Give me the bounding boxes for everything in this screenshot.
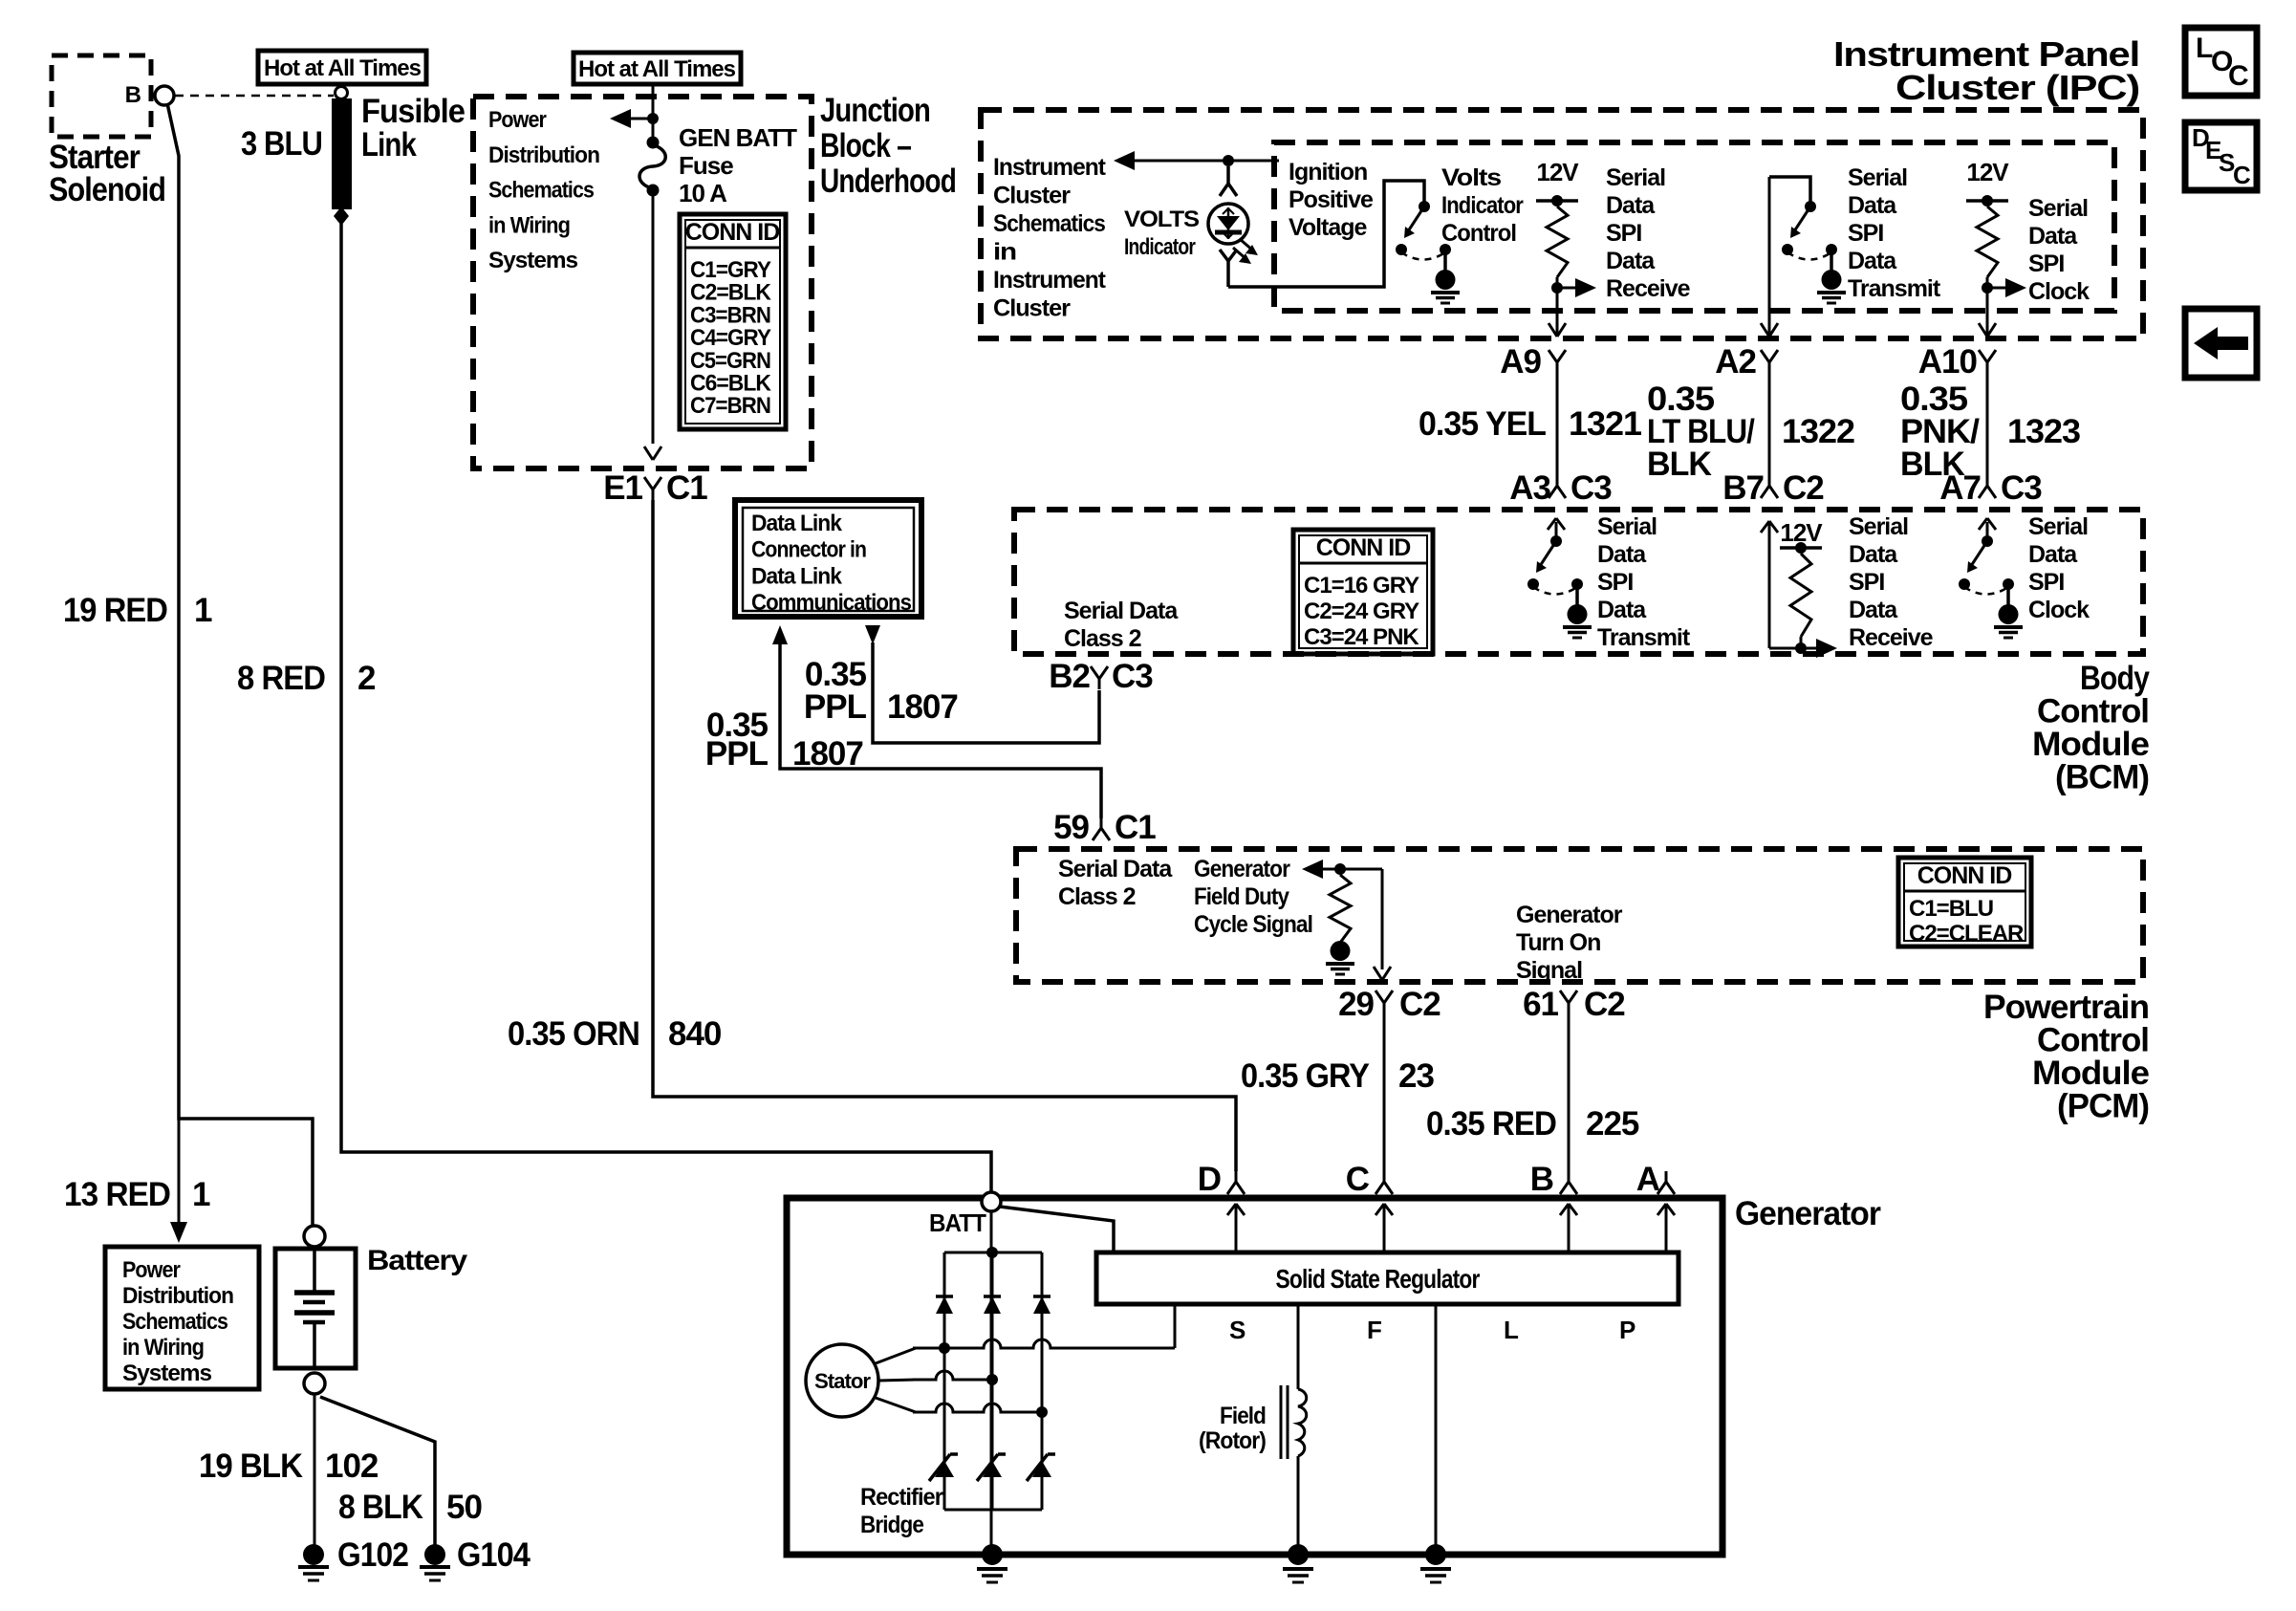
svg-text:10 A: 10 A bbox=[679, 179, 727, 207]
resistor R3 bcm receive bbox=[1790, 554, 1811, 637]
svg-text:Cluster: Cluster bbox=[993, 183, 1071, 209]
wire spi clock bcm arrow bbox=[1986, 522, 1989, 541]
power distribution schematics box (battery) bbox=[105, 1247, 259, 1389]
diode D2 bbox=[984, 1295, 1001, 1298]
svg-text:8 RED: 8 RED bbox=[237, 660, 325, 697]
battery positive terminal circle bbox=[304, 1226, 325, 1247]
node at fuse top bbox=[647, 113, 659, 124]
svg-text:Data: Data bbox=[2028, 541, 2078, 568]
stator phase top wire bbox=[913, 1339, 1175, 1348]
regulator pin C arrow bbox=[1383, 1204, 1386, 1252]
generator ground 3 bbox=[1425, 1544, 1446, 1565]
wire regulator L to ground bbox=[1435, 1304, 1438, 1555]
rectifier column 2 bbox=[991, 1252, 994, 1510]
svg-text:Serial: Serial bbox=[1597, 513, 1657, 540]
wire 0.35 PPL 1807 upper (to BCM B2) bbox=[865, 625, 880, 644]
wire 0.35 GRY 23 bbox=[1383, 1013, 1386, 1171]
svg-text:GEN BATT: GEN BATT bbox=[679, 123, 797, 152]
svg-text:Data: Data bbox=[1849, 541, 1898, 568]
svg-text:Ignition: Ignition bbox=[1289, 159, 1367, 185]
generator BATT terminal circle bbox=[982, 1192, 1001, 1211]
svg-text:(BCM): (BCM) bbox=[2055, 759, 2149, 796]
svg-text:1: 1 bbox=[194, 592, 212, 629]
svg-text:1: 1 bbox=[192, 1176, 210, 1213]
svg-text:Receive: Receive bbox=[1849, 624, 1934, 651]
svg-text:Volts: Volts bbox=[1441, 164, 1501, 191]
svg-text:Generator: Generator bbox=[1194, 856, 1290, 882]
stator phase middle wire bbox=[913, 1371, 992, 1380]
svg-text:Class 2: Class 2 bbox=[1064, 625, 1141, 652]
scr S3 bbox=[1027, 1454, 1048, 1481]
svg-text:Stator: Stator bbox=[814, 1369, 871, 1393]
svg-text:CONN ID: CONN ID bbox=[1917, 862, 2012, 889]
svg-text:Data: Data bbox=[2028, 223, 2078, 250]
svg-text:(PCM): (PCM) bbox=[2057, 1088, 2149, 1125]
svg-text:Schematics: Schematics bbox=[122, 1309, 228, 1335]
svg-text:A9: A9 bbox=[1500, 343, 1541, 381]
svg-text:in: in bbox=[993, 239, 1016, 266]
wire fuse to E1 bbox=[652, 193, 655, 444]
svg-text:C3: C3 bbox=[1112, 658, 1153, 695]
svg-text:Module: Module bbox=[2032, 1055, 2150, 1092]
svg-text:Cluster: Cluster bbox=[993, 295, 1071, 322]
connector A7 C3 bcm bbox=[1986, 475, 1989, 486]
svg-text:Data: Data bbox=[1848, 248, 1897, 274]
svg-text:CONN ID: CONN ID bbox=[685, 219, 780, 246]
node bcm receive bbox=[1795, 642, 1807, 654]
wire A9 inside ipc bbox=[1556, 277, 1559, 335]
arrow serial data receive bbox=[1557, 287, 1577, 290]
svg-text:C1: C1 bbox=[1115, 809, 1156, 846]
wire resistor to node bcm bbox=[1800, 637, 1803, 648]
svg-text:Data: Data bbox=[1597, 597, 1647, 623]
svg-text:225: 225 bbox=[1586, 1105, 1639, 1143]
wire 29 C2 inside pcm bbox=[1381, 869, 1384, 969]
svg-text:in Wiring: in Wiring bbox=[122, 1335, 204, 1361]
svg-text:1323: 1323 bbox=[2007, 413, 2081, 450]
12V feed bar ipc clock bbox=[1966, 199, 2008, 203]
svg-text:C2=CLEAR: C2=CLEAR bbox=[1909, 921, 2024, 947]
svg-text:C1=BLU: C1=BLU bbox=[1909, 896, 1993, 922]
svg-text:PPL: PPL bbox=[804, 688, 867, 726]
svg-text:C7=BRN: C7=BRN bbox=[690, 393, 770, 419]
svg-text:12V: 12V bbox=[1966, 158, 2009, 186]
svg-text:Signal: Signal bbox=[1516, 957, 1582, 984]
rectifier column 1 bbox=[943, 1252, 946, 1510]
svg-text:Data: Data bbox=[1606, 192, 1656, 219]
12V feed bar ipc receive bbox=[1536, 199, 1578, 203]
svg-text:1807: 1807 bbox=[887, 688, 958, 726]
svg-text:C2: C2 bbox=[1783, 469, 1824, 507]
connector C bbox=[1383, 1171, 1386, 1182]
connector A9 ipc bbox=[1549, 350, 1557, 362]
wire 0.35 YEL 1321 bbox=[1556, 373, 1559, 475]
generator ground 1 bbox=[982, 1544, 1003, 1565]
wire A2 inside ipc bbox=[1768, 177, 1771, 335]
stator M1 bbox=[806, 1344, 878, 1417]
connector B bbox=[1568, 1171, 1570, 1182]
svg-text:C: C bbox=[1346, 1161, 1370, 1198]
svg-text:Transmit: Transmit bbox=[1848, 275, 1941, 302]
svg-text:0.35 GRY: 0.35 GRY bbox=[1241, 1057, 1370, 1095]
svg-text:C2: C2 bbox=[1584, 986, 1625, 1023]
connector E1 C1 bbox=[644, 477, 653, 490]
svg-text:Positive: Positive bbox=[1289, 186, 1374, 213]
volts indicator lamp U1 bbox=[1208, 204, 1248, 244]
svg-text:Clock: Clock bbox=[2028, 278, 2090, 305]
svg-text:Data: Data bbox=[1606, 248, 1656, 274]
fusible link F1 bar bbox=[333, 99, 351, 208]
svg-text:Turn On: Turn On bbox=[1516, 929, 1600, 956]
wire dashed B to fusible link bbox=[175, 95, 334, 98]
svg-text:Data Link: Data Link bbox=[751, 563, 843, 589]
arrowhead A9 at ipc edge bbox=[1549, 323, 1557, 337]
svg-text:Instrument: Instrument bbox=[993, 267, 1107, 294]
svg-text:C3=24 PNK: C3=24 PNK bbox=[1304, 624, 1419, 650]
connector A2 ipc bbox=[1761, 350, 1769, 362]
diode D1 bbox=[936, 1295, 953, 1298]
svg-text:SPI: SPI bbox=[1849, 569, 1884, 596]
wire 0.35 RED 225 bbox=[1568, 1013, 1570, 1171]
svg-text:Hot at All Times: Hot at All Times bbox=[578, 56, 736, 82]
svg-text:1321: 1321 bbox=[1569, 405, 1642, 443]
svg-text:Instrument: Instrument bbox=[993, 154, 1107, 181]
svg-text:G104: G104 bbox=[457, 1536, 531, 1574]
scr S1 bbox=[929, 1454, 950, 1481]
svg-text:Connector in: Connector in bbox=[751, 537, 866, 563]
svg-text:BLK: BLK bbox=[1647, 446, 1712, 483]
svg-text:Cycle Signal: Cycle Signal bbox=[1194, 911, 1312, 938]
ground G102 bbox=[303, 1544, 324, 1565]
svg-text:CONN ID: CONN ID bbox=[1316, 534, 1411, 561]
svg-text:Clock: Clock bbox=[2028, 597, 2090, 623]
svg-text:Systems: Systems bbox=[488, 248, 578, 273]
arrowhead 29 at pcm edge bbox=[1374, 967, 1382, 980]
arrowhead into junction block edge bbox=[644, 446, 653, 460]
svg-text:A3: A3 bbox=[1509, 469, 1550, 507]
volts indicator connector bottom bbox=[1220, 250, 1228, 261]
fusible link bottom diamond bbox=[334, 207, 349, 226]
arrow serial data clock bbox=[1987, 287, 2007, 290]
svg-text:0.35 RED: 0.35 RED bbox=[1426, 1105, 1556, 1143]
svg-text:Systems: Systems bbox=[122, 1361, 212, 1386]
svg-text:SPI: SPI bbox=[1606, 220, 1641, 247]
generator ground 2 bbox=[1288, 1544, 1309, 1565]
LOC box bbox=[2185, 28, 2257, 96]
wire field coil to ground bbox=[1297, 1456, 1300, 1555]
svg-text:Transmit: Transmit bbox=[1597, 624, 1691, 651]
svg-text:Class 2: Class 2 bbox=[1058, 883, 1136, 910]
regulator pin D arrow bbox=[1235, 1204, 1238, 1252]
junction block underhood box bbox=[473, 97, 812, 468]
svg-text:Distribution: Distribution bbox=[488, 142, 599, 168]
svg-text:13 RED: 13 RED bbox=[64, 1176, 170, 1213]
svg-text:Voltage: Voltage bbox=[1289, 214, 1368, 241]
wire 0.35 ORN 840 E1 to generator D bbox=[653, 500, 1236, 1171]
instrument panel cluster box bbox=[981, 110, 2143, 338]
svg-text:Solenoid: Solenoid bbox=[49, 171, 165, 208]
volts indicator connector top bbox=[1226, 166, 1230, 184]
battery negative terminal circle bbox=[304, 1373, 325, 1394]
wire ignition positive voltage with arrow bbox=[1114, 151, 1135, 170]
svg-text:G102: G102 bbox=[337, 1536, 408, 1574]
svg-text:Solid State Regulator: Solid State Regulator bbox=[1276, 1264, 1481, 1294]
svg-text:Cluster (IPC): Cluster (IPC) bbox=[1895, 68, 2139, 107]
svg-text:PPL: PPL bbox=[705, 735, 769, 773]
connector 61 C2 bbox=[1560, 991, 1569, 1003]
svg-text:3 BLU: 3 BLU bbox=[241, 125, 322, 163]
fuse GEN BATT 10A bbox=[647, 137, 660, 149]
svg-text:50: 50 bbox=[446, 1489, 482, 1526]
svg-text:SPI: SPI bbox=[2028, 250, 2064, 277]
svg-text:P: P bbox=[1619, 1316, 1635, 1344]
svg-text:A10: A10 bbox=[1918, 343, 1978, 381]
svg-text:Block –: Block – bbox=[820, 127, 911, 164]
solid state regulator U2 bbox=[1096, 1252, 1679, 1304]
svg-text:840: 840 bbox=[668, 1015, 722, 1053]
svg-text:Field: Field bbox=[1220, 1403, 1266, 1429]
resistor R1 ipc receive bbox=[1547, 207, 1568, 277]
regulator pin B arrow bbox=[1568, 1204, 1570, 1252]
wire volts lamp to control switch bbox=[1228, 181, 1424, 287]
rectifier top rail bbox=[944, 1252, 1042, 1254]
starter solenoid box bbox=[52, 55, 151, 137]
connector B7 C2 bcm bbox=[1768, 475, 1771, 486]
svg-text:B: B bbox=[1530, 1161, 1553, 1198]
svg-text:L: L bbox=[1504, 1316, 1519, 1344]
svg-text:SPI: SPI bbox=[1597, 569, 1633, 596]
wire A10 inside ipc bbox=[1986, 277, 1989, 335]
rectifier column 3 bbox=[1041, 1252, 1044, 1510]
svg-text:19 RED: 19 RED bbox=[63, 592, 167, 629]
svg-text:B2: B2 bbox=[1049, 658, 1090, 695]
svg-text:2: 2 bbox=[357, 660, 376, 697]
svg-text:Body: Body bbox=[2080, 660, 2150, 697]
svg-text:61: 61 bbox=[1523, 986, 1558, 1023]
svg-text:Serial: Serial bbox=[2028, 513, 2088, 540]
regulator pin A arrow bbox=[1665, 1204, 1668, 1252]
spi clock switch Q4 (bcm) bbox=[1982, 535, 1993, 547]
svg-text:Control: Control bbox=[2037, 693, 2149, 730]
wire regulator S to stator phase bbox=[1174, 1304, 1177, 1348]
svg-text:Distribution: Distribution bbox=[122, 1283, 233, 1309]
svg-text:Serial: Serial bbox=[1606, 164, 1665, 191]
field rotor coil L1 bbox=[1298, 1389, 1307, 1456]
svg-text:Generator: Generator bbox=[1735, 1195, 1881, 1232]
svg-text:C1=16 GRY: C1=16 GRY bbox=[1304, 573, 1419, 599]
svg-text:C: C bbox=[2228, 60, 2248, 92]
svg-text:Receive: Receive bbox=[1606, 275, 1691, 302]
resistor R2 ipc clock bbox=[1977, 207, 1998, 277]
svg-text:Control: Control bbox=[2037, 1022, 2149, 1059]
svg-text:1807: 1807 bbox=[792, 735, 863, 773]
svg-text:Powertrain: Powertrain bbox=[1983, 989, 2149, 1026]
feed arrow left bbox=[610, 109, 631, 128]
wire 8 BLK battery to G104 bbox=[320, 1397, 435, 1546]
svg-text:Link: Link bbox=[361, 126, 417, 163]
conn id table junction block bbox=[680, 214, 786, 429]
svg-text:C: C bbox=[2233, 161, 2251, 189]
svg-text:23: 23 bbox=[1398, 1057, 1434, 1095]
wire 0.35 PNK/BLK 1323 bbox=[1986, 373, 1989, 475]
svg-text:in Wiring: in Wiring bbox=[488, 212, 570, 238]
connector A10 ipc bbox=[1979, 350, 1987, 362]
ipc inner dashed box bbox=[1274, 142, 2114, 311]
rectifier bottom rail bbox=[944, 1509, 1042, 1512]
generator box bbox=[787, 1198, 1722, 1555]
svg-text:59: 59 bbox=[1053, 809, 1089, 846]
connector 59 C1 bbox=[1100, 817, 1103, 828]
svg-text:Indicator: Indicator bbox=[1441, 192, 1524, 219]
back arrow box bbox=[2185, 309, 2257, 378]
arrowhead 13 RED bbox=[170, 1222, 187, 1243]
svg-text:SPI: SPI bbox=[2028, 569, 2064, 596]
connector A bbox=[1665, 1171, 1668, 1182]
svg-text:Schematics: Schematics bbox=[993, 210, 1105, 237]
svg-text:1322: 1322 bbox=[1782, 413, 1855, 450]
node rectifier batt bbox=[986, 1247, 998, 1258]
svg-text:Data Link: Data Link bbox=[751, 511, 843, 536]
svg-text:19 BLK: 19 BLK bbox=[199, 1448, 303, 1485]
data link connector box bbox=[735, 500, 921, 617]
svg-text:C2: C2 bbox=[1399, 986, 1440, 1023]
ground ball pcm bbox=[1331, 941, 1351, 961]
connector A3 C3 bcm bbox=[1556, 475, 1559, 486]
svg-text:Serial Data: Serial Data bbox=[1064, 598, 1179, 624]
terminal B circle bbox=[155, 86, 174, 105]
wire hot feed into junction block bbox=[652, 84, 655, 140]
wire spi transmit bcm arrow bbox=[1555, 522, 1558, 541]
svg-text:Junction: Junction bbox=[820, 92, 930, 129]
volts indicator light arrows bbox=[1240, 239, 1254, 251]
svg-text:Field Duty: Field Duty bbox=[1194, 883, 1289, 910]
node spi clock bbox=[1982, 282, 1993, 294]
svg-text:Control: Control bbox=[1441, 220, 1516, 247]
svg-text:(Rotor): (Rotor) bbox=[1199, 1427, 1267, 1454]
svg-text:0.35 YEL: 0.35 YEL bbox=[1419, 405, 1547, 443]
ground G104 bbox=[424, 1544, 445, 1565]
svg-text:Data: Data bbox=[1849, 597, 1898, 623]
hot at all times box 1 bbox=[258, 51, 426, 84]
svg-text:S: S bbox=[1229, 1316, 1245, 1344]
svg-text:Bridge: Bridge bbox=[860, 1512, 924, 1538]
svg-text:BATT: BATT bbox=[929, 1208, 986, 1237]
wire 19 BLK battery to G102 bbox=[314, 1394, 316, 1546]
wire BATT to regulator bbox=[1000, 1207, 1114, 1252]
arrowhead A2 at ipc edge bbox=[1761, 323, 1769, 337]
svg-text:Data: Data bbox=[1597, 541, 1647, 568]
svg-text:C1: C1 bbox=[666, 469, 707, 507]
svg-text:12V: 12V bbox=[1536, 158, 1579, 186]
svg-text:29: 29 bbox=[1338, 986, 1374, 1023]
scr S2 bbox=[977, 1454, 998, 1481]
connector 29 C2 bbox=[1375, 991, 1384, 1003]
svg-text:Power: Power bbox=[122, 1257, 181, 1283]
svg-text:C3: C3 bbox=[1570, 469, 1612, 507]
svg-text:C2=24 GRY: C2=24 GRY bbox=[1304, 599, 1419, 624]
svg-text:8 BLK: 8 BLK bbox=[338, 1489, 423, 1526]
12V feed bar bcm bbox=[1780, 546, 1822, 550]
svg-text:D: D bbox=[1198, 1161, 1221, 1198]
wire regulator F to field coil bbox=[1297, 1304, 1300, 1389]
svg-text:Schematics: Schematics bbox=[488, 178, 595, 204]
wire 13 RED stub to power distribution bbox=[178, 1119, 181, 1233]
wire 19 RED solenoid to battery bbox=[167, 103, 313, 1226]
spi data transmit switch Q3 (bcm) bbox=[1550, 535, 1562, 547]
svg-text:Generator: Generator bbox=[1516, 902, 1623, 928]
stator phase bottom wire bbox=[913, 1404, 1042, 1412]
wire B7 bcm receive bbox=[1768, 523, 1771, 648]
svg-text:Data: Data bbox=[1848, 192, 1897, 219]
battery plates bbox=[313, 1249, 316, 1292]
svg-text:B7: B7 bbox=[1722, 469, 1764, 507]
node spi data receive bbox=[1551, 282, 1563, 294]
DESC box bbox=[2185, 122, 2257, 190]
volts indicator control switch Q1 bbox=[1419, 201, 1430, 212]
svg-text:F: F bbox=[1367, 1316, 1381, 1344]
svg-text:Rectifier: Rectifier bbox=[860, 1484, 943, 1511]
svg-text:B: B bbox=[125, 82, 141, 108]
svg-text:102: 102 bbox=[325, 1448, 379, 1485]
svg-text:Hot at All Times: Hot at All Times bbox=[264, 55, 422, 81]
node volts indicator feed bbox=[1223, 155, 1234, 166]
svg-text:A: A bbox=[1636, 1161, 1660, 1198]
svg-text:VOLTS: VOLTS bbox=[1124, 207, 1200, 232]
wire spi transmit ipc bbox=[1769, 177, 1810, 203]
svg-text:Battery: Battery bbox=[367, 1245, 467, 1276]
conn id table pcm bbox=[1898, 858, 2031, 947]
node field duty resistor bbox=[1334, 863, 1346, 875]
svg-text:SPI: SPI bbox=[1848, 220, 1883, 247]
svg-text:Indicator: Indicator bbox=[1124, 234, 1196, 260]
svg-text:Serial Data: Serial Data bbox=[1058, 856, 1173, 882]
svg-text:Module: Module bbox=[2032, 726, 2150, 763]
diode D3 bbox=[1033, 1295, 1051, 1298]
svg-text:Serial: Serial bbox=[1848, 164, 1907, 191]
svg-text:A2: A2 bbox=[1715, 343, 1756, 381]
fusible link top circle bbox=[336, 87, 348, 99]
svg-text:Communications: Communications bbox=[751, 590, 912, 616]
svg-text:Serial: Serial bbox=[2028, 195, 2088, 222]
body control module box bbox=[1014, 510, 2143, 654]
wire 0.35 PPL 1807 lower (to PCM 59) bbox=[772, 625, 788, 644]
stator leads bbox=[876, 1348, 916, 1363]
connector B2 C3 bbox=[1091, 666, 1099, 679]
svg-text:Fuse: Fuse bbox=[679, 151, 733, 180]
spi data transmit switch Q2 (ipc) bbox=[1805, 201, 1816, 212]
svg-text:Power: Power bbox=[488, 107, 547, 133]
svg-text:E1: E1 bbox=[603, 469, 642, 507]
resistor R4 pcm field duty bbox=[1330, 875, 1351, 943]
svg-text:Fusible: Fusible bbox=[361, 93, 465, 130]
hot at all times box 2 bbox=[574, 53, 741, 84]
wire 0.35 LT BLU/BLK 1322 bbox=[1768, 373, 1771, 475]
svg-text:Serial: Serial bbox=[1849, 513, 1908, 540]
svg-text:0.35 ORN: 0.35 ORN bbox=[508, 1015, 639, 1053]
svg-text:Underhood: Underhood bbox=[820, 163, 956, 200]
wire 8 RED fusible link to generator BATT bbox=[341, 224, 991, 1191]
powertrain control module box bbox=[1016, 849, 2143, 982]
wire BATT to rectifier and ground bbox=[990, 1211, 993, 1555]
connector D bbox=[1235, 1171, 1238, 1182]
svg-text:C3: C3 bbox=[2001, 469, 2042, 507]
arrow generator field duty bbox=[1302, 860, 1323, 879]
svg-text:A7: A7 bbox=[1939, 469, 1981, 507]
conn id table bcm bbox=[1293, 530, 1433, 654]
arrowhead A10 at ipc edge bbox=[1979, 323, 1987, 337]
battery B1 box bbox=[275, 1249, 356, 1368]
